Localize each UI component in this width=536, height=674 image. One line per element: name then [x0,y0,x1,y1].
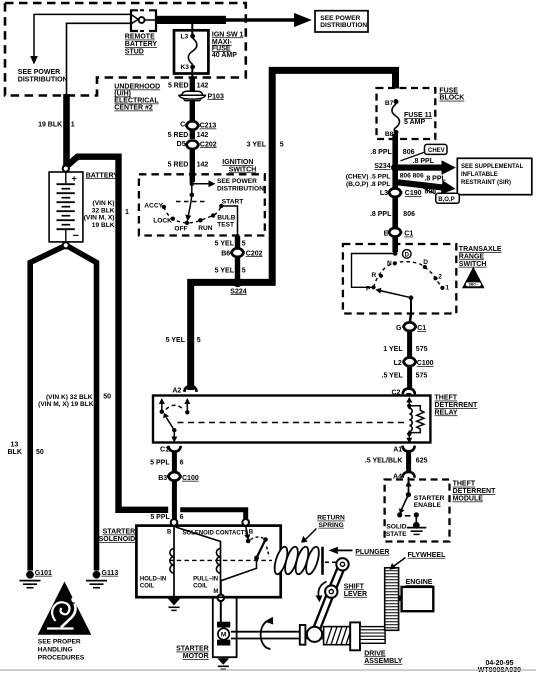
wire: 5 RED 142 into ignition switch [190,148,195,175]
svg-text:SWITCH: SWITCH [229,166,257,173]
underhood electrical center #2 dashed enclosure [5,3,246,96]
svg-text:IGN SW 1: IGN SW 1 [212,31,244,38]
wire: fuse block to S234 (.8 PPL 806) [392,134,398,165]
svg-text:19 BLK: 19 BLK [38,122,62,129]
svg-text:+: + [72,174,77,184]
svg-text:D5: D5 [177,141,186,148]
svg-text:A2: A2 [172,387,181,394]
svg-text:SHIFT: SHIFT [344,583,365,590]
connector C190 (L3) [380,188,436,197]
svg-text:ELECTRICAL: ELECTRICAL [114,98,159,105]
node: starter enable bottom [397,512,402,517]
warning triangle: transaxle (II) [462,267,485,288]
svg-text:(VIN K): (VIN K) [93,200,115,207]
ignition switch dashed box [139,174,265,235]
svg-text:50: 50 [103,394,111,401]
svg-text:LOCK: LOCK [153,218,172,225]
dashed throw arc [166,405,184,409]
svg-text:5 YEL: 5 YEL [215,268,235,275]
svg-text:ASSEMBLY: ASSEMBLY [364,658,403,665]
svg-text:32 BLK: 32 BLK [92,207,115,214]
wire: 5 PPL 6 [172,451,177,474]
plate/date [478,660,521,674]
wire: 5 RED 142 [190,129,195,139]
label STARTER ENABLE [414,495,445,509]
node: contact pivot [254,556,259,561]
terminal B (solenoid coil feed) [171,519,178,526]
dashed mechanical link across relay [178,422,406,424]
svg-text:B6: B6 [221,250,230,257]
wire: pivot to M [221,558,257,594]
wire: B to pull-in coil [176,527,221,549]
flywheel ring gear [385,568,399,631]
svg-text:DISTRIBUTION: DISTRIBUTION [320,22,367,29]
svg-text:DISTRIBUTION: DISTRIBUTION [217,185,264,192]
wire: pivot to C1 with down arrow [173,430,175,437]
svg-text:625: 625 [416,457,428,464]
plunger end plate [321,547,324,575]
svg-text:BLOCK: BLOCK [439,95,464,102]
ground G101 [20,570,53,588]
svg-text:THEFT: THEFT [435,395,458,402]
svg-text:6: 6 [180,459,184,466]
svg-text:B,O,P: B,O,P [438,197,454,203]
svg-text:STARTER: STARTER [414,495,445,502]
shift lever [307,558,349,642]
svg-text:806 806: 806 806 [400,173,424,180]
svg-text:6: 6 [180,514,184,521]
terminal M [218,595,225,602]
contact N [393,261,397,265]
svg-text:5 PPL: 5 PPL [150,459,170,466]
svg-text:C202: C202 [246,250,263,257]
svg-text:5 YEL: 5 YEL [215,241,235,248]
connector C2 (relay input) [391,389,414,397]
wire: feed to power distribution [226,18,295,22]
svg-text:HANDLING: HANDLING [38,646,73,653]
node B7 [394,99,399,104]
connector C202 (D5) [177,141,217,149]
contact 1 [440,286,444,290]
ground: hold-in coil [168,595,180,611]
svg-text:142: 142 [197,132,209,139]
starter motor symbol [217,622,230,646]
label PLUNGER with arrow [329,547,390,556]
svg-text:C100: C100 [182,475,199,482]
svg-text:SEE POWER: SEE POWER [320,15,360,22]
wire into fuse [191,24,193,34]
transaxle range switch dashed box [343,244,456,314]
svg-text:S224: S224 [230,288,246,295]
fuse 11 element squiggle [392,104,400,131]
svg-text:40 AMP: 40 AMP [212,52,237,59]
svg-text:C202: C202 [200,141,217,148]
wire: A4 into module with up arrow [408,477,410,493]
connector A4 (module input) [393,472,415,480]
svg-text:G101: G101 [35,570,52,577]
svg-text:INFLATABLE: INFLATABLE [461,172,498,178]
label STARTER MOTOR [176,646,209,661]
wire: thick feed bar from stud [155,16,226,24]
label SHIFT LEVER [344,583,367,598]
contact D [423,265,427,269]
tag B,O,P [420,187,459,204]
flywheel to engine coupling [399,596,402,601]
svg-text:SPRING: SPRING [319,522,344,529]
svg-text:TEST: TEST [217,221,234,228]
svg-text:K3: K3 [181,64,190,71]
svg-text:RESTRAINT (SIR): RESTRAINT (SIR) [461,180,511,186]
svg-text:C1: C1 [417,325,426,332]
svg-text:REMOTE: REMOTE [125,34,155,41]
svg-text:STARTER: STARTER [103,529,136,536]
contact BULB TEST [211,213,215,217]
remote battery stud symbol [131,10,156,31]
svg-text:M: M [213,589,218,595]
relay armature arm [166,418,174,431]
svg-text:PLUNGER: PLUNGER [355,549,389,556]
svg-text:DBO··: DBO·· [469,283,478,287]
svg-text:.5 YEL/BLK: .5 YEL/BLK [365,457,403,464]
svg-text:SOLID: SOLID [386,524,406,531]
node: battery positive terminal [63,166,69,172]
svg-text:C1: C1 [404,231,413,238]
svg-text:(VIN M, X) 19 BLK: (VIN M, X) 19 BLK [38,401,94,408]
dashed link plunger to shift lever [325,561,337,563]
label HOLD-IN COIL [140,576,166,589]
svg-text:SEE SUPPLEMENTAL: SEE SUPPLEMENTAL [461,164,524,170]
wire: negative to G101 [30,247,63,571]
rotation arrow [261,621,271,649]
svg-text:E: E [384,231,389,238]
svg-text:1: 1 [71,122,75,129]
svg-text:575: 575 [416,372,428,379]
svg-text:D: D [423,259,428,266]
wire: S224 to fuse block (3 YEL 5) [191,70,396,390]
svg-text:(VIN M, X): (VIN M, X) [84,215,115,222]
connector C202 (B6) [221,248,262,257]
curved arrow at shift lever [316,582,327,603]
wire: stud to see-power-distribution arrow [34,14,132,56]
svg-text:B: B [167,529,172,535]
rotor arm to OFF [188,195,192,216]
svg-text:5: 5 [280,141,284,148]
terminal B (battery cable) [242,519,249,526]
wire: P feed loop [352,254,396,288]
splice S234 [391,164,399,172]
svg-text:PROCEDURES: PROCEDURES [38,654,85,661]
svg-text:STARTER: STARTER [176,646,209,653]
svg-text:C1: C1 [160,446,169,453]
svg-text:SEE POWER: SEE POWER [217,178,257,185]
wire into fuse 11 [395,99,397,102]
wire: 5 YEL 5 to S224 [235,256,240,281]
svg-text:RETURN: RETURN [317,515,345,522]
connector C100 (L2) [394,358,434,368]
svg-text:BATTERY: BATTERY [86,172,119,179]
label (VIN K) 32 BLK (VIN M, X) 19 BLK [84,200,115,229]
labels (CHEV)/(B,O,P) PPL + 806 806 [346,173,424,188]
hold-in coil [173,549,175,595]
connector C1 (G) [396,322,426,332]
arrow: see power distribution (down) [30,56,38,65]
svg-text:142: 142 [197,161,209,168]
svg-text:OFF: OFF [174,226,187,233]
contact RUN [198,218,202,222]
svg-text:−: − [73,230,79,242]
dashed contact throw [251,537,264,540]
svg-text:MODULE: MODULE [453,496,484,503]
svg-text:ENGINE: ENGINE [406,579,433,586]
svg-text:806: 806 [403,211,415,218]
svg-text:SOLENOID CONTACTS: SOLENOID CONTACTS [183,530,249,536]
label (VIN K) 32 BLK (VIN M, X) 19 BLK 50 [38,394,111,409]
wire: 5 PPL 6 to solenoid B [172,480,177,519]
battery plates [57,172,75,241]
theft deterrent module dashed box [385,480,450,542]
node: battery positive terminal (top) [63,166,69,172]
svg-text:CHEV: CHEV [428,148,445,154]
dashed link arm to plunger line [267,547,270,557]
rotor arm (points to P) [380,291,411,298]
node K3 [190,65,195,70]
svg-text:C213: C213 [200,123,217,130]
label SOLID STATE [386,524,407,539]
svg-text:M: M [221,632,227,639]
svg-text:FLYWHEEL: FLYWHEEL [408,552,447,559]
svg-text:B3: B3 [158,475,167,482]
node: battery negative terminal [63,242,69,248]
svg-text:19 BLK: 19 BLK [92,222,115,229]
wire: M to motor [220,601,222,622]
drive assembly: collar [350,622,360,650]
svg-text:HOLD–IN: HOLD–IN [140,576,166,582]
wire: .8 PPL 806 to C1 [392,196,398,228]
svg-text:2: 2 [438,274,442,281]
svg-text:5: 5 [242,268,246,275]
label THEFT DETERRENT MODULE [453,481,497,503]
label SEE PROPER HANDLING PROCEDURES [38,638,85,661]
contact: moving side [263,537,268,542]
svg-text:STUD: STUD [125,48,144,55]
contact OFF [185,221,189,225]
fuse element squiggle [188,38,197,65]
label 13 BLK 50 [8,442,44,457]
connector C213 [180,121,216,129]
svg-text:5 PPL: 5 PPL [150,514,170,521]
svg-text:DISTRIBUTION: DISTRIBUTION [18,76,68,83]
svg-text:142: 142 [197,83,209,90]
svg-text:G113: G113 [102,570,119,577]
svg-text:G: G [396,325,402,332]
node: feed junction [190,182,195,187]
node: ground side contact [414,512,419,517]
starter motor enclosure [213,597,237,657]
label FLYWHEEL with arrow [390,552,447,570]
relay contact: fixed poles with up arrows [159,398,191,414]
svg-text:DETERRENT: DETERRENT [435,402,479,409]
return spring [272,545,321,575]
svg-text:C: C [180,122,185,129]
connector C1 (E) [384,228,414,238]
svg-text:B7: B7 [385,100,394,107]
connector A2 [172,386,196,394]
label DRIVE ASSEMBLY [364,650,403,665]
svg-text:1: 1 [445,285,449,292]
svg-text:.8 PPL: .8 PPL [413,158,435,165]
svg-text:(VIN K) 32 BLK: (VIN K) 32 BLK [46,394,93,401]
svg-text:13: 13 [11,442,19,449]
fuse: IGN SW 1 MAXI-FUSE 40 AMP box [174,30,208,73]
arrow to see power distribution box [294,13,312,27]
wire: S234 down [392,169,398,188]
svg-text:B8: B8 [385,131,394,138]
svg-text:1 YEL: 1 YEL [383,346,403,353]
arrow: to SIR 2 (slanted thick) [396,175,457,196]
svg-text:5 AMP: 5 AMP [404,119,425,126]
label TRANSAXLE RANGE SWITCH [459,246,502,268]
contact 2 [433,276,437,280]
node: rotor pivot [190,193,195,198]
label FUSE BLOCK [439,87,464,101]
connector P103 [179,91,224,101]
svg-text:DRIVE: DRIVE [364,650,386,657]
fuse block dashed box [377,88,436,139]
svg-text:A1: A1 [393,446,402,453]
starter enable switch arm [401,495,408,511]
battery box [49,172,83,242]
svg-text:5: 5 [197,337,201,344]
drive assembly: pinion shaft [360,627,385,644]
svg-text:.8 PPL: .8 PPL [370,211,392,218]
svg-text:806: 806 [403,149,415,156]
drive assembly: clutch hatched section [324,627,351,645]
engine box [402,587,434,611]
wire into transaxle range switch [392,236,398,252]
svg-text:START: START [222,199,244,206]
svg-text:COIL: COIL [193,583,208,589]
label IGN SW 1 MAXI-FUSE 40 AMP [212,31,244,59]
svg-text:IGNITION: IGNITION [222,159,253,166]
svg-text:S234: S234 [374,163,390,170]
bottom hairline [0,669,536,670]
tag CHEV [401,144,448,160]
connector C1 (relay out) [160,446,181,454]
contact R [379,274,383,278]
solenoid contact: B side with down arrow [246,526,248,536]
svg-text:1: 1 [125,209,129,216]
wire: P103 to C213 [190,101,195,122]
ground: starter motor [217,657,229,669]
svg-text:ENABLE: ENABLE [414,502,442,509]
connector A1 (relay out) [393,446,414,454]
node: rotor pivot [409,295,414,300]
svg-text:BATTERY: BATTERY [125,41,158,48]
starter solenoid box [136,526,280,598]
ground G113 [86,570,118,588]
svg-text:TRANSAXLE: TRANSAXLE [459,246,502,253]
svg-text:COIL: COIL [140,583,155,589]
contact START [219,204,223,208]
contact P [372,285,376,289]
svg-text:P: P [366,286,371,293]
wire to solid state ground [415,515,417,524]
svg-text:5 RED: 5 RED [168,83,189,90]
pull-in coil [220,549,222,595]
connector C100 (B3) [158,472,199,482]
svg-text:R: R [372,272,377,279]
label IGNITION SWITCH [222,159,256,173]
arrow: see power distribution (inside switch) [192,183,209,185]
svg-text:5 RED: 5 RED [168,161,189,168]
dashed gate line [176,201,208,203]
label 19 BLK 1 [38,122,75,129]
svg-text:575: 575 [416,346,428,353]
label RETURN SPRING with arrow [301,515,345,543]
svg-text:P103: P103 [208,93,224,100]
wire into switch [190,174,195,182]
contact gap dash [405,515,411,517]
dashed detent arc [164,206,221,223]
svg-text:(CHEV) .5 PPL: (CHEV) .5 PPL [346,173,391,180]
label SEE POWER DISTRIBUTION (left) [18,69,68,84]
theft deterrent relay box [153,396,430,443]
svg-text:806: 806 [425,188,437,195]
svg-text:RUN: RUN [198,225,213,232]
svg-text:5: 5 [242,241,246,248]
label PULL-IN COIL [193,576,218,589]
splice S224 [233,278,242,287]
svg-text:C190: C190 [405,190,422,197]
shaft collar [300,625,306,645]
svg-text:50: 50 [36,449,44,456]
wire: 5 YEL 5 [235,236,240,250]
wire: .5 YEL/BLK 625 [406,450,411,471]
svg-text:L3: L3 [181,33,189,40]
wire: switch output [410,298,412,314]
svg-text:SEE POWER: SEE POWER [18,69,60,76]
svg-text:L3: L3 [380,190,388,197]
svg-text:LEVER: LEVER [344,591,367,598]
svg-text:ACCY: ACCY [144,202,163,209]
dashed plunger axis [169,559,272,561]
wire: negative to G113 [68,247,96,571]
motor shaft [231,632,323,639]
contact LOCK [171,217,175,221]
wire: .5 YEL 575 [407,366,412,390]
label THEFT DETERRENT RELAY [435,395,479,417]
svg-text:RELAY: RELAY [435,409,458,416]
wire: stud to battery positive (19 BLK ckt 1) [67,23,132,95]
contact arm [257,541,266,559]
svg-text:MOTOR: MOTOR [183,653,209,660]
relay coil assembly [406,397,424,444]
svg-text:PULL–IN: PULL–IN [193,576,218,582]
node: armature pivot [172,428,176,432]
node B8 [394,130,399,135]
svg-text:CENTER #2: CENTER #2 [114,105,153,112]
wire to rotor [191,184,193,195]
warning triangle: battery handling [38,582,92,635]
label REMOTE BATTERY STUD [125,34,158,56]
wire: fuse output 5 RED 142 [191,69,193,79]
svg-text:UNDERHOOD: UNDERHOOD [114,84,160,91]
arrow: S234 to SIR (thick) [398,165,442,171]
svg-text:C100: C100 [417,360,434,367]
node: starter enable top [406,492,411,497]
box SEE SUPPLEMENTAL INFLATABLE RESTRAINT (SIR) [457,158,532,194]
svg-text:.5 YEL: .5 YEL [382,372,404,379]
